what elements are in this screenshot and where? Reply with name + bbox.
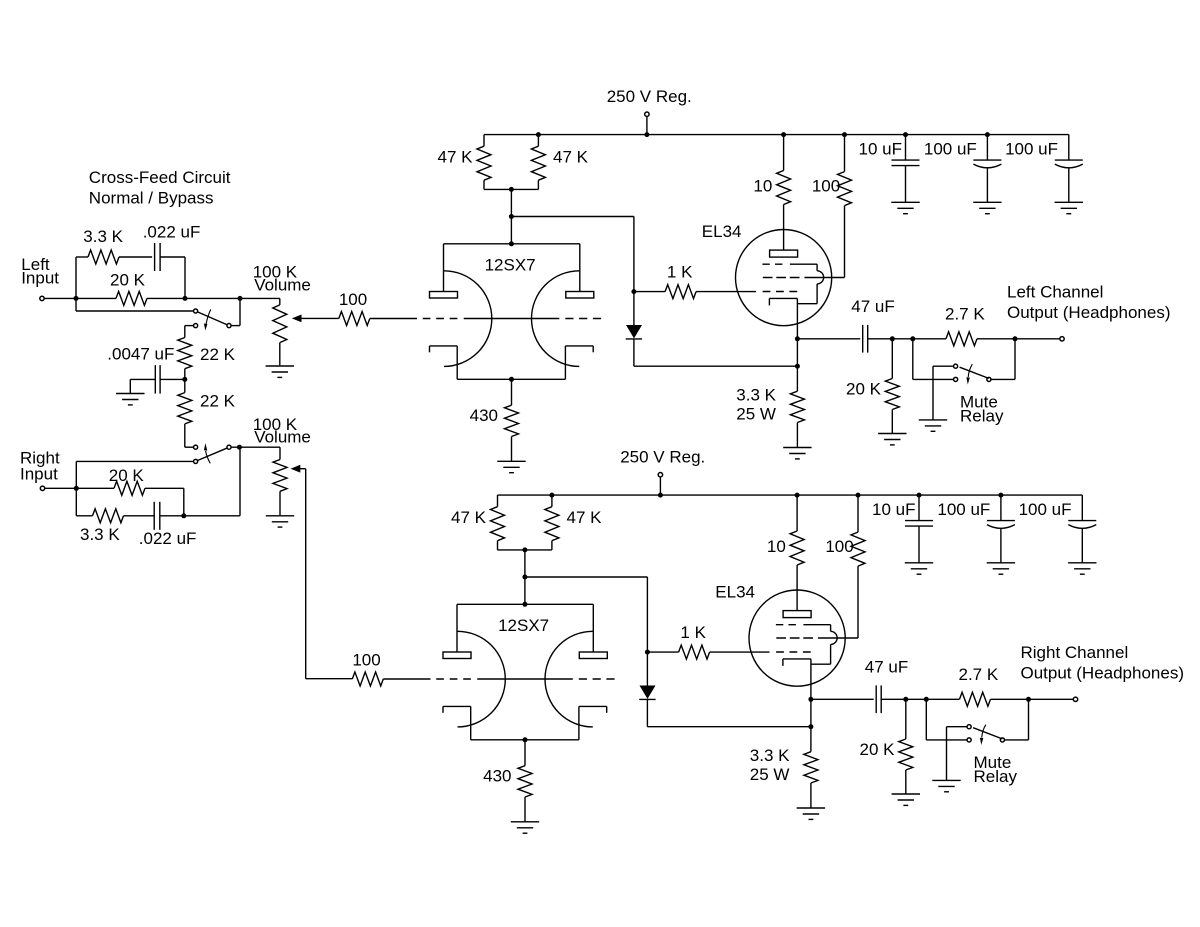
junction rail/100uF (left channel) (985, 132, 990, 137)
svg-text:47 K: 47 K (438, 148, 474, 167)
svg-text:2.7 K: 2.7 K (945, 305, 985, 324)
svg-text:3.3 K: 3.3 K (750, 746, 790, 765)
resistor 3.3 K 25 W cathode load (right channel) (750, 727, 818, 808)
junction cathode/diode return (right channel) (808, 724, 813, 729)
ground 100uF B (left channel) (1055, 201, 1083, 203)
svg-text:100 uF: 100 uF (937, 500, 990, 519)
switch mute relay (left channel) (913, 339, 1015, 426)
svg-text:.022 uF: .022 uF (143, 223, 201, 242)
wire left input (44, 297, 76, 299)
junction rail/47K (left channel) (536, 132, 541, 137)
tube 12SX7 (right channel) (436, 602, 615, 740)
junction rail/B+ (left channel) (644, 132, 649, 137)
wire coupling to 1K node (left channel) (511, 217, 634, 292)
junction rail/B+ (right channel) (658, 493, 663, 498)
junction tube cathode (left channel) (509, 377, 514, 382)
svg-text:22 K: 22 K (200, 392, 236, 411)
svg-text:2.7 K: 2.7 K (959, 665, 999, 684)
node output terminal (left channel) (1060, 337, 1064, 341)
wire switch to right volume (231, 446, 280, 448)
junction rail/100ohm (left channel) (842, 132, 847, 137)
resistor 10 plate (right channel) (767, 495, 804, 610)
junction rail/10uF (right channel) (917, 493, 922, 498)
wire switch to 22K chain (185, 326, 193, 338)
resistor 3.3 K right crossfeed (76, 488, 154, 544)
capacitor .022 uF right crossfeed (139, 502, 197, 548)
junction rail/10uF (left channel) (903, 132, 908, 137)
svg-text:100 uF: 100 uF (1019, 500, 1072, 519)
svg-text:10: 10 (753, 177, 772, 196)
wire plate node down to tube (right channel) (524, 550, 526, 604)
junction 47K pair (right channel) (522, 547, 527, 552)
svg-text:430: 430 (470, 406, 498, 425)
svg-text:20 K: 20 K (846, 380, 882, 399)
svg-text:EL34: EL34 (715, 583, 755, 602)
junction right branch merge (181, 513, 186, 518)
label left input (21, 255, 59, 288)
svg-text:12SX7: 12SX7 (498, 616, 549, 635)
capacitor .0047 uF crossfeed shunt (107, 344, 185, 393)
ground 20K resistor (right channel) (892, 793, 920, 795)
resistor 3.3 K 25 W cathode load (left channel) (736, 366, 804, 447)
svg-text:EL34: EL34 (702, 222, 742, 241)
wire right input (45, 487, 77, 489)
wire switch to left volume (231, 298, 240, 325)
potentiometer 100 K volume right (253, 415, 311, 516)
svg-text:Volume: Volume (254, 275, 311, 294)
junction output/20K (left channel) (890, 336, 895, 341)
junction output/relay (left channel) (910, 336, 915, 341)
junction rail/10ohm (right channel) (795, 493, 800, 498)
svg-text:20 K: 20 K (110, 271, 146, 290)
svg-text:10 uF: 10 uF (872, 500, 915, 519)
junction output terminal node (right channel) (1026, 697, 1031, 702)
junction plate node / coupling (left channel) (509, 214, 514, 219)
node right input terminal (40, 486, 44, 490)
resistor 2.7 K output series (right channel) (959, 665, 1029, 706)
resistor 20 K output bleed (left channel) (846, 339, 899, 434)
junction output terminal node (left channel) (1013, 336, 1018, 341)
diode bias clamp (left channel) (626, 292, 642, 367)
ground mute relay (left channel) (919, 419, 947, 421)
wire diode to cathode node (left channel) (634, 365, 798, 367)
capacitor 100 uF filter B (left channel) (1005, 135, 1083, 203)
wire right node to volume (184, 447, 240, 516)
capacitor 10 uF filter (right channel) (872, 495, 933, 563)
svg-text:430: 430 (483, 766, 511, 785)
wire cathode node down (right channel) (810, 699, 812, 726)
junction tube cathode (right channel) (523, 737, 528, 742)
ground 3.3K resistor (right channel) (797, 807, 825, 809)
svg-text:Volume: Volume (254, 427, 311, 446)
junction EL34 cathode / output (right channel) (808, 697, 813, 702)
ground cathode 430 (right channel) (511, 821, 539, 823)
resistor 1 K grid (left channel) (634, 263, 756, 299)
ground 10uF (right channel) (905, 562, 933, 564)
wire B+ rail (left channel) (484, 134, 1069, 136)
junction output/relay (right channel) (924, 697, 929, 702)
junction left volume node (238, 296, 243, 301)
svg-text:47 uF: 47 uF (865, 658, 908, 677)
ground 3.3K resistor (left channel) (783, 447, 811, 449)
svg-text:47 uF: 47 uF (851, 297, 894, 316)
node left input terminal (40, 296, 44, 300)
svg-text:Relay: Relay (974, 767, 1018, 786)
wire cathode node down (left channel) (796, 339, 798, 366)
ground left volume (266, 365, 294, 367)
capacitor 100 uF filter A (left channel) (924, 135, 1002, 203)
switch mute relay (right channel) (926, 699, 1028, 786)
svg-text:Relay: Relay (960, 406, 1004, 425)
svg-text:Output (Headphones): Output (Headphones) (1021, 663, 1185, 682)
node B+ 250V terminal (right channel) (620, 448, 705, 496)
svg-text:.0047 uF: .0047 uF (107, 344, 174, 363)
svg-text:47 K: 47 K (451, 508, 487, 527)
wire left bypass (76, 298, 193, 311)
potentiometer 100 K volume left (240, 263, 311, 366)
junction plate node / coupling (right channel) (522, 575, 527, 580)
ground 20K resistor (left channel) (878, 433, 906, 435)
label cross-feed title (89, 168, 231, 207)
junction 22K midpoint (182, 377, 187, 382)
svg-text:100: 100 (352, 651, 380, 670)
junction left input (74, 296, 79, 301)
capacitor 47 uF output coupling (left channel) (797, 297, 894, 353)
wire output node (right channel) (906, 698, 960, 700)
junction cathode/diode return (left channel) (795, 364, 800, 369)
ground 100uF A (left channel) (973, 201, 1001, 203)
svg-text:10 uF: 10 uF (859, 140, 902, 159)
junction rail/10ohm (left channel) (781, 132, 786, 137)
svg-text:25 W: 25 W (750, 765, 790, 784)
resistor 47 K right plate load (right channel) (525, 495, 602, 550)
ground mute relay (right channel) (932, 779, 960, 781)
resistor 100 screen (right channel) (825, 495, 865, 638)
node output terminal (right channel) (1073, 697, 1077, 701)
svg-text:3.3 K: 3.3 K (83, 227, 123, 246)
ground 10uF (left channel) (891, 201, 919, 203)
svg-text:250 V Reg.: 250 V Reg. (607, 87, 692, 106)
svg-text:Cross-Feed Circuit: Cross-Feed Circuit (89, 168, 231, 187)
label output channel (right channel) (1021, 643, 1185, 682)
svg-text:Output (Headphones): Output (Headphones) (1007, 303, 1171, 322)
switch crossfeed right (normal/bypass) (194, 443, 232, 463)
junction right input (74, 486, 79, 491)
resistor 100 grid stopper (left channel) (339, 290, 417, 326)
resistor 22 K upper crossfeed (178, 338, 236, 380)
resistor 430 cathode (left channel) (470, 379, 519, 461)
junction 1K/diode node (right channel) (645, 650, 650, 655)
resistor 100 screen (left channel) (812, 135, 852, 278)
svg-text:22 K: 22 K (200, 345, 236, 364)
svg-text:25 W: 25 W (736, 404, 776, 423)
wire coupling to 1K node (right channel) (525, 577, 648, 652)
tube EL34 (right channel) (715, 583, 858, 700)
wire diode to cathode node (right channel) (647, 726, 811, 728)
wire left node to volume (185, 297, 240, 299)
svg-text:10: 10 (767, 537, 786, 556)
resistor 430 cathode (right channel) (483, 740, 532, 822)
resistor 10 plate (left channel) (753, 135, 790, 251)
switch crossfeed left (normal/bypass) (194, 309, 232, 331)
svg-text:3.3 K: 3.3 K (736, 385, 776, 404)
svg-text:1 K: 1 K (667, 263, 693, 282)
svg-text:250 V Reg.: 250 V Reg. (620, 448, 705, 467)
svg-text:100 uF: 100 uF (1005, 140, 1058, 159)
capacitor .022 uF left crossfeed (143, 223, 201, 299)
tube EL34 (left channel) (702, 222, 845, 339)
svg-text:3.3 K: 3.3 K (80, 525, 120, 544)
capacitor 100 uF filter B (right channel) (1019, 495, 1097, 563)
junction 47K pair (left channel) (509, 187, 514, 192)
svg-text:.022 uF: .022 uF (139, 529, 197, 548)
svg-text:Input: Input (21, 269, 59, 288)
label output channel (left channel) (1007, 283, 1171, 322)
svg-text:47 K: 47 K (567, 508, 603, 527)
resistor 20 K left series (76, 271, 185, 306)
junction 1K/diode node (left channel) (631, 289, 636, 294)
label right input (20, 449, 60, 484)
resistor 1 K grid (right channel) (647, 623, 769, 659)
junction rail/100uF (right channel) (998, 493, 1003, 498)
capacitor 100 uF filter A (right channel) (937, 495, 1015, 563)
wire B+ rail (right channel) (498, 494, 1083, 496)
svg-text:12SX7: 12SX7 (485, 255, 536, 274)
resistor 22 K lower crossfeed (178, 379, 236, 447)
svg-text:100: 100 (812, 177, 840, 196)
resistor 20 K right series (76, 466, 184, 516)
resistor 47 K left plate load (left channel) (438, 135, 512, 190)
ground right volume (266, 515, 294, 517)
wire right bypass (76, 461, 193, 488)
junction rail/47K (right channel) (549, 493, 554, 498)
diode bias clamp (right channel) (639, 652, 655, 727)
resistor 3.3 K left crossfeed (76, 227, 152, 298)
svg-text:Normal / Bypass: Normal / Bypass (89, 188, 214, 207)
svg-text:100: 100 (825, 537, 853, 556)
wire to output jack (right channel) (1029, 698, 1074, 700)
resistor 100 grid stopper (right channel) (352, 651, 430, 687)
svg-text:20 K: 20 K (860, 740, 896, 759)
wiper right volume (291, 465, 353, 679)
ground cathode 430 (left channel) (497, 460, 525, 462)
tube 12SX7 (left channel) (423, 241, 602, 379)
wire output node (left channel) (892, 338, 946, 340)
svg-text:100 uF: 100 uF (924, 140, 977, 159)
junction rail/100ohm (right channel) (856, 493, 861, 498)
resistor 47 K right plate load (left channel) (511, 135, 588, 190)
junction left branch merge (183, 296, 188, 301)
wiper left volume (292, 315, 339, 323)
ground 100uF B (right channel) (1068, 562, 1096, 564)
resistor 20 K output bleed (right channel) (860, 699, 913, 794)
svg-text:Input: Input (20, 465, 58, 484)
node B+ 250V terminal (left channel) (607, 87, 692, 135)
capacitor 10 uF filter (left channel) (859, 135, 920, 203)
resistor 47 K left plate load (right channel) (451, 495, 525, 550)
junction right volume node (237, 445, 242, 450)
capacitor 47 uF output coupling (right channel) (811, 658, 908, 714)
resistor 2.7 K output series (left channel) (945, 305, 1015, 346)
ground crossfeed cap (116, 393, 144, 395)
svg-text:Left Channel: Left Channel (1007, 283, 1103, 302)
svg-text:1 K: 1 K (680, 623, 706, 642)
wire to output jack (left channel) (1015, 338, 1060, 340)
wire plate node down to tube (left channel) (510, 189, 512, 243)
svg-text:Right Channel: Right Channel (1021, 643, 1129, 662)
svg-text:100: 100 (339, 290, 367, 309)
junction output/20K (right channel) (903, 697, 908, 702)
svg-text:47 K: 47 K (553, 148, 589, 167)
junction EL34 cathode / output (left channel) (795, 336, 800, 341)
ground 100uF A (right channel) (987, 562, 1015, 564)
